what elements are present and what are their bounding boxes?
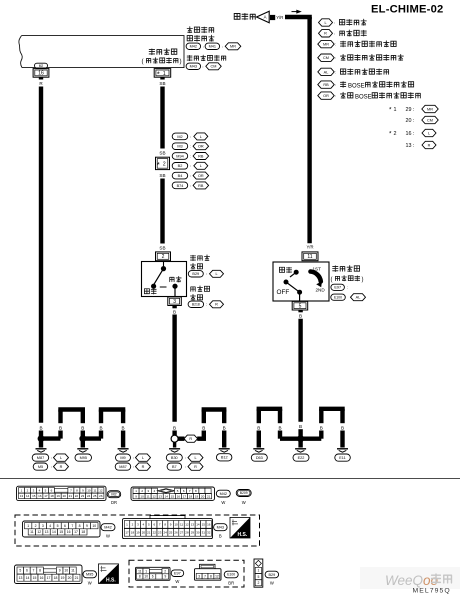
connector face M2 pins top (19, 488, 55, 493)
svg-text:13: 13 (191, 522, 195, 526)
connector face M42 pins top (25, 523, 99, 529)
svg-text:M43: M43 (217, 526, 224, 530)
variant tag RB (193, 182, 209, 189)
svg-text:B: B (299, 314, 302, 319)
svg-text:14: 14 (26, 494, 30, 498)
svg-text:18: 18 (131, 530, 135, 534)
svg-text:17: 17 (74, 530, 78, 534)
connector B218 (188, 301, 204, 307)
svg-text:5: 5 (19, 569, 21, 573)
svg-text:31: 31 (202, 530, 206, 534)
svg-text:M2: M2 (111, 493, 116, 497)
svg-text:B: B (59, 425, 62, 430)
svg-text:23: 23 (158, 530, 162, 534)
svg-text:21: 21 (69, 494, 73, 498)
ground connector M87 rhd (115, 463, 131, 470)
svg-text:24: 24 (163, 530, 167, 534)
watermark WeeQoo weiku (385, 573, 451, 588)
wire n2 top (99, 407, 126, 411)
svg-text:W: W (106, 533, 110, 538)
text 带多功能遥控系统 (340, 41, 396, 47)
svg-text:BR: BR (228, 581, 234, 586)
svg-text:7: 7 (71, 524, 73, 528)
wire SB segment 2 (160, 179, 164, 244)
svg-text:11: 11 (93, 488, 96, 492)
svg-text:2: 2 (394, 131, 397, 137)
wire r-left top (257, 407, 283, 411)
svg-text:13: 13 (159, 494, 163, 498)
svg-text:): ) (180, 58, 182, 65)
H.S. mark 1 (230, 517, 250, 538)
svg-text:B: B (257, 425, 260, 430)
svg-text:R: R (324, 32, 327, 36)
ground connector E11 (335, 454, 351, 461)
svg-text:M9: M9 (120, 456, 125, 460)
svg-text::: : (222, 44, 223, 49)
svg-text:BOSE: BOSE (348, 83, 365, 89)
wire splice to tag (178, 437, 185, 441)
svg-text:29: 29 (191, 530, 195, 534)
svg-text:6: 6 (152, 575, 154, 579)
svg-text:M94: M94 (176, 154, 183, 158)
combination switch box (273, 262, 329, 301)
svg-text::: : (206, 271, 207, 276)
svg-text:E100: E100 (334, 295, 342, 299)
off-page connector triangle A (257, 11, 270, 23)
connector M43 (186, 63, 201, 69)
svg-text:RB: RB (198, 184, 204, 188)
variant tag AL legend (318, 68, 334, 75)
svg-text:13: 13 (45, 530, 49, 534)
svg-text::: : (334, 31, 335, 36)
connector face M42 pins bottom (28, 529, 87, 535)
ground M95 (77, 449, 88, 452)
wire up n1 left (58, 431, 62, 439)
wire B down from combination switch (298, 319, 302, 422)
unit box (door switch driver side, torn left edge) (19, 36, 184, 68)
door switch travel dash (160, 286, 167, 288)
svg-text:B: B (320, 425, 323, 430)
svg-text:EL-CHIME-02: EL-CHIME-02 (371, 4, 443, 16)
svg-text:14: 14 (196, 522, 200, 526)
svg-text::: : (185, 464, 186, 469)
ground B30 (169, 449, 180, 452)
wire Y/R horizontal (285, 15, 312, 19)
svg-text:B4: B4 (178, 174, 183, 178)
wire R stub (39, 77, 43, 79)
connector B4 (172, 172, 188, 179)
text 左前门 (front door LH) (190, 255, 209, 261)
svg-text:RB: RB (323, 83, 329, 87)
svg-text:21: 21 (75, 576, 79, 580)
variant tag RB (193, 153, 209, 160)
door switch open contact (172, 284, 177, 289)
dashed harness box 2 (129, 560, 244, 587)
text 右舵车型 (RHD models) (340, 30, 367, 36)
svg-text:B: B (223, 425, 226, 430)
svg-text:19: 19 (56, 494, 60, 498)
connector face E100 pins (196, 573, 220, 578)
svg-text:21: 21 (147, 530, 151, 534)
connector ref M42 footer (216, 490, 230, 497)
pin 16 (33, 69, 49, 78)
connector M42 (186, 43, 201, 49)
pin 3 of door switch (168, 297, 182, 306)
svg-text:11: 11 (30, 530, 34, 534)
svg-text:2: 2 (162, 254, 165, 260)
svg-text:10: 10 (87, 488, 91, 492)
svg-text::: : (347, 285, 348, 290)
wire Y/R vertical to combination switch (307, 17, 311, 243)
variant tag R legend (319, 30, 333, 37)
svg-text:B29: B29 (269, 573, 276, 577)
svg-text:15: 15 (59, 530, 63, 534)
svg-text:16: 16 (177, 494, 181, 498)
connector M94 (172, 153, 188, 160)
svg-text:13: 13 (20, 494, 24, 498)
svg-text:17: 17 (125, 530, 129, 534)
svg-text:11: 11 (147, 494, 150, 498)
pin *1 (154, 69, 171, 79)
variant tag AL (351, 294, 366, 301)
svg-text:AL: AL (324, 70, 329, 74)
variant tag CM legend (318, 54, 334, 61)
auto contact node (294, 270, 299, 275)
variant tag MR legend (318, 40, 334, 47)
text （驾驶员侧） (driver side) (142, 58, 182, 66)
junction dot 1 (38, 435, 45, 442)
svg-text:SB: SB (159, 151, 165, 156)
variant tag R ground3 (136, 463, 151, 470)
text 不带 BOSE 系统的右舵车型 (340, 92, 420, 100)
svg-text:AL: AL (356, 296, 361, 300)
svg-text:CM: CM (211, 65, 217, 69)
svg-text:B: B (173, 425, 176, 430)
door switch box (142, 262, 187, 297)
svg-text:5: 5 (57, 524, 59, 528)
svg-text::: : (203, 44, 204, 49)
svg-text:B: B (299, 424, 302, 429)
pin 11 of combination switch (302, 252, 318, 261)
variant tag R footnote (422, 141, 436, 148)
wire bus dot2 right (83, 436, 101, 440)
svg-text:17: 17 (183, 494, 187, 498)
variant tag MR (225, 43, 241, 50)
svg-text:OR: OR (198, 145, 204, 149)
connector face E97 pins (137, 569, 150, 574)
svg-text:W: W (242, 500, 246, 505)
svg-text::: : (51, 455, 52, 460)
svg-text:W: W (270, 581, 274, 586)
svg-text::: : (335, 69, 336, 74)
ground connector B12 (216, 454, 232, 461)
svg-text:18: 18 (189, 494, 193, 498)
svg-text:18: 18 (54, 576, 58, 580)
ground connector B30 (166, 454, 182, 461)
text 带自动灯光系统 (340, 69, 388, 75)
svg-text::: : (335, 42, 336, 47)
wire B down from door switch (172, 315, 176, 422)
svg-text:1: 1 (27, 524, 29, 528)
svg-text:R: R (194, 465, 197, 469)
svg-text:12: 12 (37, 530, 41, 534)
variant tag OR (193, 172, 209, 179)
svg-text:MR: MR (230, 45, 236, 49)
svg-text::: : (335, 55, 336, 60)
svg-text:M42: M42 (220, 492, 227, 496)
svg-text::: : (190, 134, 191, 139)
svg-text:6: 6 (64, 524, 66, 528)
svg-text:B209: B209 (240, 491, 248, 495)
switch lever (286, 282, 300, 292)
variant tag OR legend (318, 92, 334, 99)
text 右前门 (front door RH) (191, 286, 210, 292)
svg-text:M5: M5 (38, 465, 43, 469)
pin 2 of door switch (156, 252, 171, 261)
svg-text:MR: MR (323, 43, 329, 47)
svg-text:1: 1 (257, 569, 259, 573)
svg-text:2ND: 2ND (316, 288, 326, 293)
variant tag R ground mid (188, 463, 203, 470)
variant tag L ground mid (188, 454, 203, 461)
text 不带多功能遥控系统 (340, 54, 403, 60)
svg-text:B218: B218 (192, 303, 200, 307)
wire up mid n (202, 431, 206, 439)
svg-text:L: L (324, 21, 326, 25)
svg-text:E97: E97 (334, 286, 341, 290)
svg-text::: : (185, 455, 186, 460)
svg-text:B: B (99, 425, 102, 430)
door switch common stub (163, 261, 165, 267)
connector face M95 outline (15, 565, 83, 584)
svg-text:10: 10 (92, 524, 96, 528)
svg-text:B30: B30 (171, 456, 178, 460)
svg-text::: : (190, 153, 191, 158)
variant tag R ground1 (54, 463, 69, 470)
svg-text:2: 2 (257, 581, 259, 585)
svg-text:M87: M87 (119, 465, 126, 469)
svg-text::: : (190, 173, 191, 178)
svg-text:B: B (39, 425, 42, 430)
connector face E97 outline (136, 567, 171, 580)
svg-text:16: 16 (38, 494, 42, 498)
wire n1 top (58, 407, 85, 411)
svg-text:B: B (122, 425, 125, 430)
ground connector M9 (116, 454, 131, 461)
ground E11 (337, 449, 348, 452)
svg-text:8: 8 (139, 575, 141, 579)
rotary arc arrowhead (316, 282, 322, 288)
connector ref M42 face (101, 524, 115, 531)
svg-text:13 :: 13 : (406, 143, 415, 149)
svg-text:23: 23 (81, 494, 85, 498)
connector face M43 outline (123, 516, 213, 539)
svg-text:7: 7 (33, 569, 35, 573)
wire r-right top (319, 407, 345, 411)
wire dot3 down (298, 439, 302, 448)
svg-text:14: 14 (165, 494, 169, 498)
svg-text:B: B (202, 425, 205, 430)
svg-text:B2: B2 (178, 164, 183, 168)
svg-text:L: L (142, 456, 144, 460)
svg-text:11: 11 (138, 569, 142, 573)
wire SB stub (160, 77, 164, 79)
connector face B29 outline (254, 559, 263, 587)
svg-text::: : (133, 455, 134, 460)
svg-text:R: R (60, 465, 63, 469)
svg-text:L: L (194, 456, 196, 460)
svg-text:16: 16 (40, 576, 44, 580)
variant tag R splice (184, 435, 198, 442)
connector face B209 pins bottom (133, 494, 212, 499)
svg-text:17: 17 (47, 576, 51, 580)
svg-text:M95: M95 (86, 573, 93, 577)
svg-text::: : (190, 163, 191, 168)
ground M9 (118, 449, 129, 452)
connector M3 (172, 143, 188, 150)
svg-text:OFF: OFF (277, 289, 290, 296)
svg-text:26: 26 (174, 530, 178, 534)
svg-text:21: 21 (207, 494, 211, 498)
ground connector D53 (251, 454, 267, 461)
svg-text:8: 8 (79, 524, 81, 528)
svg-text:A: A (264, 15, 267, 20)
connector E97 (331, 284, 345, 290)
H.S. mark 2 (99, 564, 119, 584)
wire bus right (301, 437, 322, 441)
svg-text:3: 3 (198, 574, 200, 578)
connector ref M43 face (214, 524, 228, 531)
connector face M43 pins top (124, 521, 211, 529)
svg-text:MEL795Q: MEL795Q (413, 588, 451, 595)
svg-text:M2: M2 (39, 64, 44, 68)
watermark background (360, 567, 460, 589)
svg-text:19: 19 (136, 530, 140, 534)
connector B29 (188, 271, 203, 277)
svg-text:5: 5 (257, 575, 259, 579)
ground B12 (219, 449, 230, 452)
ground connector M87 (32, 454, 49, 461)
svg-text:B74: B74 (177, 184, 184, 188)
text 自动 (auto) (279, 267, 291, 272)
connector E100 (331, 294, 346, 300)
variant tag CM (206, 63, 221, 70)
svg-text:H.S.: H.S. (106, 577, 116, 583)
splice circle junction (171, 435, 178, 442)
svg-text:22: 22 (75, 494, 79, 498)
connector face E100 outline (195, 564, 222, 580)
wire B stub below door switch (172, 305, 176, 308)
wire contact to pin 5 (299, 292, 301, 301)
svg-text:*: * (157, 160, 160, 169)
connector B74 (172, 182, 188, 189)
door switch common node (161, 266, 166, 271)
wire bus left (280, 437, 301, 441)
svg-text:Y/R: Y/R (307, 245, 314, 250)
variant tag L ground1 (54, 454, 69, 461)
svg-text:BOSE: BOSE (355, 94, 372, 100)
door switch lever (154, 269, 164, 285)
svg-text:18: 18 (50, 494, 54, 498)
svg-text:19: 19 (195, 494, 199, 498)
connector face M42 outline (23, 521, 101, 537)
svg-text:14: 14 (52, 530, 56, 534)
junction dot 3 (297, 435, 304, 442)
svg-text::: : (334, 20, 335, 25)
svg-text:B: B (278, 425, 281, 430)
wire bus dot1 right (41, 436, 61, 440)
svg-text:B12: B12 (221, 456, 228, 460)
connector face M2 pins bottom (19, 493, 104, 498)
svg-text:12: 12 (215, 574, 219, 578)
svg-text:WeeQoo: WeeQoo (385, 573, 439, 588)
svg-text:CM: CM (323, 56, 329, 60)
svg-text:2: 2 (164, 569, 166, 573)
ground connector B7 (167, 463, 182, 470)
text 带 BOSE 系统的右舵车型 (340, 81, 413, 89)
ground D53 (253, 449, 264, 452)
svg-text:W: W (175, 579, 179, 584)
svg-text:MR: MR (427, 107, 433, 111)
svg-text:R: R (428, 143, 431, 147)
svg-text:CM: CM (427, 118, 433, 122)
svg-text:12: 12 (153, 494, 157, 498)
variant tag CM footnote (422, 116, 438, 123)
svg-text:6: 6 (26, 569, 28, 573)
connector face M2 outline (17, 486, 107, 500)
svg-text:16 :: 16 : (406, 131, 415, 137)
svg-text::: : (335, 93, 336, 98)
svg-text:Y/R: Y/R (276, 15, 283, 20)
svg-text:25: 25 (169, 530, 173, 534)
ground connector E22 (293, 454, 309, 461)
connector face M95 pins bottom (17, 574, 80, 581)
svg-text:16: 16 (67, 530, 71, 534)
svg-text:16: 16 (38, 71, 44, 77)
svg-text:15: 15 (33, 576, 37, 580)
svg-text:H.S.: H.S. (238, 532, 248, 538)
text 车门开关 (door switch) (149, 49, 177, 55)
connector ref E100 face (224, 571, 238, 578)
connector M41 (205, 43, 220, 49)
svg-text::: : (335, 82, 336, 87)
svg-text:D53: D53 (256, 456, 263, 460)
text 控制单元 (control unit) (187, 35, 214, 41)
connector face B29 pins (255, 560, 261, 566)
connector face M95 pins top (17, 567, 43, 574)
dashed harness box 1 (15, 515, 260, 546)
text 智能进入 (smart entrance) (187, 27, 214, 33)
svg-text:12: 12 (185, 522, 189, 526)
connector face B209 pins top (133, 488, 157, 493)
svg-text:20: 20 (142, 530, 146, 534)
door switch closed contact (151, 284, 156, 289)
svg-text:8: 8 (39, 569, 41, 573)
svg-text:B: B (173, 309, 176, 314)
svg-text:M42: M42 (190, 45, 197, 49)
svg-text:SB: SB (159, 245, 165, 250)
auto contact tick (290, 272, 296, 277)
svg-text:): ) (362, 277, 364, 283)
svg-text:R: R (189, 437, 192, 441)
svg-text:SB: SB (159, 173, 165, 178)
svg-text:M43: M43 (190, 65, 197, 69)
svg-text:7: 7 (204, 574, 206, 578)
wire open contact to pin 3 (174, 286, 176, 296)
wire down to ground M87 (39, 439, 43, 448)
svg-text:24: 24 (87, 494, 91, 498)
svg-text:10: 10 (64, 569, 68, 573)
